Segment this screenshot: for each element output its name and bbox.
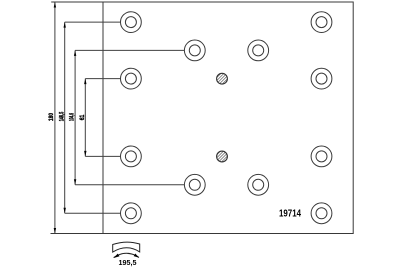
svg-text:195,5: 195,5 bbox=[119, 258, 137, 267]
svg-text:180: 180 bbox=[49, 112, 55, 121]
svg-text:104,8: 104,8 bbox=[70, 113, 76, 121]
svg-text:19714: 19714 bbox=[279, 209, 301, 220]
svg-text:148,5: 148,5 bbox=[60, 111, 66, 121]
svg-text:61: 61 bbox=[80, 114, 86, 120]
